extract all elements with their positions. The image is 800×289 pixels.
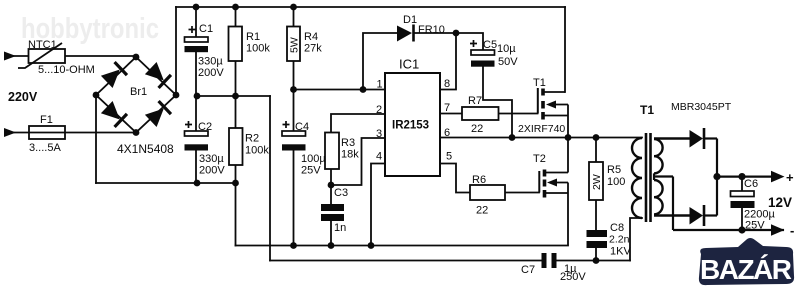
wire secondary bottom lead xyxy=(654,214,690,217)
node bridge left xyxy=(93,92,100,99)
svg-text:18k: 18k xyxy=(341,149,359,161)
svg-text:D1: D1 xyxy=(403,14,417,26)
capacitor C7 xyxy=(521,253,586,283)
diode D3 lower MBR3045PT xyxy=(690,205,718,226)
wire top rail down to T1 drain xyxy=(564,7,566,92)
resistor R4 xyxy=(287,27,322,62)
svg-text:R2: R2 xyxy=(245,133,259,145)
svg-text:10µ: 10µ xyxy=(497,43,516,55)
wire C3 bottom xyxy=(330,221,332,246)
node rail183 R2 xyxy=(232,180,239,187)
diode D1 FR10 xyxy=(397,14,445,42)
resistor R5 xyxy=(589,162,625,200)
IC U1 : IC1 IR2153 xyxy=(385,57,440,177)
capacitor C8 xyxy=(587,222,632,258)
svg-text:+: + xyxy=(786,170,794,185)
wire secondary center tap xyxy=(654,173,784,230)
wire R6 to T2 gate xyxy=(505,192,539,194)
svg-text:2.2n: 2.2n xyxy=(609,234,630,246)
wire C4 top xyxy=(293,90,295,132)
svg-text:C7: C7 xyxy=(521,264,535,276)
node railA C4 xyxy=(290,242,297,249)
svg-text:-: - xyxy=(790,223,794,238)
node VS C5 xyxy=(509,134,516,141)
node bridge bottom xyxy=(133,129,140,136)
capacitor C2 xyxy=(185,121,226,177)
wire AC input top to NTC xyxy=(13,55,29,57)
svg-text:F1: F1 xyxy=(40,114,53,126)
node minus C6 xyxy=(738,226,745,233)
capacitor C5 xyxy=(470,39,518,68)
watermark BAZAR logo xyxy=(699,238,794,285)
svg-text:220V: 220V xyxy=(8,90,38,104)
transistor T1 MOSFET xyxy=(533,77,568,138)
transformer T1 secondary winding upper xyxy=(654,139,663,173)
capacitor C4 xyxy=(282,121,326,177)
pin 4 xyxy=(376,151,382,163)
wire pin2 to R3 top xyxy=(331,114,385,133)
svg-text:NTC1: NTC1 xyxy=(28,39,57,51)
wire pin7 to R7 xyxy=(440,113,462,115)
wire R3 bottom to C3 top xyxy=(330,169,332,204)
wire NTC to bridge top corner xyxy=(65,55,136,57)
svg-text:3: 3 xyxy=(376,128,382,140)
capacitor C3 xyxy=(321,187,348,234)
wire C5 bottom jog to VS xyxy=(483,67,512,138)
wire AC input bottom through fuse F1 to bridge bottom corner xyxy=(13,132,136,134)
capacitor C6 xyxy=(731,177,776,232)
svg-text:FR10: FR10 xyxy=(418,24,445,36)
thermistor NTC1 xyxy=(18,39,95,76)
svg-text:100µ: 100µ xyxy=(301,153,326,165)
wire C2 top xyxy=(195,96,197,131)
wire C8 bottom xyxy=(595,248,597,261)
svg-text:BAZÁR: BAZÁR xyxy=(700,254,792,285)
wire pin1 line xyxy=(294,89,386,91)
svg-text:C3: C3 xyxy=(334,187,348,199)
svg-text:2XIRF740: 2XIRF740 xyxy=(518,123,565,135)
svg-text:1: 1 xyxy=(377,79,383,91)
svg-text:R4: R4 xyxy=(304,31,318,43)
label 220V xyxy=(8,90,38,104)
svg-text:1KV: 1KV xyxy=(610,246,631,258)
wire node to pin8 xyxy=(440,33,456,90)
wire D1 cathode to node xyxy=(415,32,457,34)
svg-text:100: 100 xyxy=(607,176,625,188)
svg-text:7: 7 xyxy=(444,102,450,114)
pin 5 xyxy=(446,151,452,163)
svg-text:5...10-OHM: 5...10-OHM xyxy=(38,64,95,76)
wire D1 anode branch xyxy=(363,33,397,90)
wire midpoint down x270 xyxy=(269,96,271,261)
wire bridge left corner down xyxy=(95,95,97,183)
diode top-right of bridge xyxy=(145,62,171,88)
svg-text:330µ: 330µ xyxy=(198,56,223,68)
svg-text:T2: T2 xyxy=(533,153,546,165)
transistor T2 MOSFET xyxy=(533,138,568,246)
resistor R6 xyxy=(470,174,505,217)
node bridge right xyxy=(173,92,180,99)
svg-text:200V: 200V xyxy=(198,67,224,79)
svg-text:C4: C4 xyxy=(295,121,309,133)
diode bottom-right of bridge xyxy=(145,101,171,127)
wire C1 bottom xyxy=(195,52,197,96)
svg-text:5: 5 xyxy=(446,151,452,163)
pin 6 xyxy=(444,127,450,139)
pin 2 xyxy=(376,104,382,116)
svg-text:12V: 12V xyxy=(768,195,792,210)
svg-text:5W: 5W xyxy=(289,37,301,53)
node mid rail R2 xyxy=(232,93,239,100)
wire R5 bottom to C8 xyxy=(595,200,597,230)
svg-text:1n: 1n xyxy=(334,222,346,234)
svg-text:2W: 2W xyxy=(591,174,603,190)
wire secondary top lead xyxy=(654,137,690,140)
svg-text:C6: C6 xyxy=(744,178,758,190)
wire mid rail C1C2 midpoint xyxy=(197,95,270,97)
input arrow bottom xyxy=(4,128,16,137)
svg-text:R6: R6 xyxy=(472,174,486,186)
svg-text:250V: 250V xyxy=(560,271,586,283)
label 12V xyxy=(768,195,792,210)
bridge rectifier Br1 xyxy=(96,57,176,156)
pin 1 xyxy=(377,79,383,91)
svg-text:C5: C5 xyxy=(483,39,497,51)
svg-text:27k: 27k xyxy=(304,43,322,55)
wire negative rail y183 xyxy=(96,182,236,184)
node pin1 R4C4 xyxy=(290,86,297,93)
wire bridge right corner up to top rail xyxy=(175,7,177,95)
wire rail B right of C7 xyxy=(557,260,631,262)
svg-text:330µ: 330µ xyxy=(199,153,224,165)
diode top-left of bridge xyxy=(101,62,127,88)
svg-text:25V: 25V xyxy=(301,165,321,177)
svg-text:8: 8 xyxy=(444,78,450,90)
node top rail R1 xyxy=(232,4,239,11)
node R3 C3 xyxy=(328,182,335,189)
svg-text:Br1: Br1 xyxy=(130,86,147,98)
svg-text:IR2153: IR2153 xyxy=(392,120,429,132)
svg-text:4: 4 xyxy=(376,151,382,163)
svg-text:R3: R3 xyxy=(341,137,355,149)
svg-text:R1: R1 xyxy=(246,31,260,43)
resistor R7 xyxy=(462,95,499,135)
wire R4 bottom xyxy=(293,61,295,90)
resistor R3 xyxy=(325,133,359,170)
wire C1 top xyxy=(195,7,197,37)
transformer T1 primary winding xyxy=(632,138,642,218)
capacitor C1 xyxy=(185,23,225,79)
wire R7 to T1 gate xyxy=(499,113,538,115)
node VS T1T2 xyxy=(565,134,572,141)
svg-text:100k: 100k xyxy=(246,43,270,55)
svg-text:100k: 100k xyxy=(245,145,269,157)
node plus C6 xyxy=(738,173,745,180)
node railA C3 xyxy=(328,242,335,249)
svg-text:4X1N5408: 4X1N5408 xyxy=(117,142,174,156)
svg-text:MBR3045PT: MBR3045PT xyxy=(671,101,732,113)
watermark hobbytronic xyxy=(21,13,159,45)
wire transformer primary bottom lead xyxy=(630,218,642,261)
node bridge top xyxy=(133,54,140,61)
node top rail R4 xyxy=(290,4,297,11)
node VS R5 xyxy=(593,134,600,141)
svg-text:2: 2 xyxy=(376,104,382,116)
wire negative rail A xyxy=(236,245,569,247)
wire R4 top xyxy=(293,7,295,27)
fuse F1 xyxy=(29,114,65,154)
node mid rail C2 xyxy=(194,93,201,100)
wire VS switch node line xyxy=(440,137,642,139)
node railA pin4 xyxy=(368,242,375,249)
pin 8 xyxy=(444,78,450,90)
svg-text:25V: 25V xyxy=(745,220,765,232)
svg-text:C2: C2 xyxy=(198,121,212,133)
node rail183 C2 xyxy=(194,180,201,187)
wire node to C5 top xyxy=(456,33,483,50)
node railB C8 xyxy=(593,257,600,264)
wire R2 top xyxy=(235,96,237,128)
wire rail B left of C7 xyxy=(270,260,542,262)
transformer T1 secondary winding lower xyxy=(654,180,663,214)
node plus out xyxy=(713,173,720,180)
resistor R2 xyxy=(229,128,269,165)
svg-text:C1: C1 xyxy=(199,23,213,35)
svg-text:IC1: IC1 xyxy=(399,57,419,72)
svg-text:T1: T1 xyxy=(640,103,654,117)
label plus xyxy=(786,170,794,185)
wire C2 bottom xyxy=(195,151,197,184)
wire x236 down xyxy=(235,183,237,246)
input arrow top xyxy=(4,52,16,61)
node top rail C1 xyxy=(193,4,200,11)
svg-text:50V: 50V xyxy=(498,56,518,68)
label minus xyxy=(790,223,794,238)
wire R2 bottom xyxy=(235,165,237,183)
wire rectifier cathode bus xyxy=(716,139,718,216)
output arrow plus xyxy=(771,171,785,183)
wire plus output xyxy=(717,176,775,178)
svg-text:3....5A: 3....5A xyxy=(29,142,61,154)
node D1 cathode xyxy=(453,30,460,37)
svg-text:T1: T1 xyxy=(533,77,546,89)
svg-text:C8: C8 xyxy=(610,222,624,234)
svg-text:R5: R5 xyxy=(607,164,621,176)
pin 3 xyxy=(376,128,382,140)
diode D2 upper MBR3045PT xyxy=(671,101,732,149)
wire pin3 to R3/C3 junction xyxy=(331,138,385,185)
wire pin5 jog to R6 xyxy=(440,164,470,193)
svg-text:R7: R7 xyxy=(468,95,482,107)
wire R5 top xyxy=(595,138,597,163)
wire pin4 down to rail A xyxy=(371,164,385,246)
transformer T1 core xyxy=(640,103,654,222)
node pin1 D1 xyxy=(360,86,367,93)
svg-text:200V: 200V xyxy=(199,165,225,177)
output arrow minus xyxy=(771,224,785,236)
wire C4 bottom xyxy=(293,151,295,246)
pin 7 xyxy=(444,102,450,114)
wire top rail xyxy=(176,6,565,8)
resistor R1 xyxy=(229,27,271,62)
svg-text:6: 6 xyxy=(444,127,450,139)
svg-text:22: 22 xyxy=(471,123,483,135)
svg-text:22: 22 xyxy=(476,205,488,217)
wire R1 bottom xyxy=(235,61,237,96)
label 2XIRF740 xyxy=(518,123,565,135)
diode bottom-left of bridge xyxy=(101,101,127,127)
wire R1 top xyxy=(235,7,237,27)
